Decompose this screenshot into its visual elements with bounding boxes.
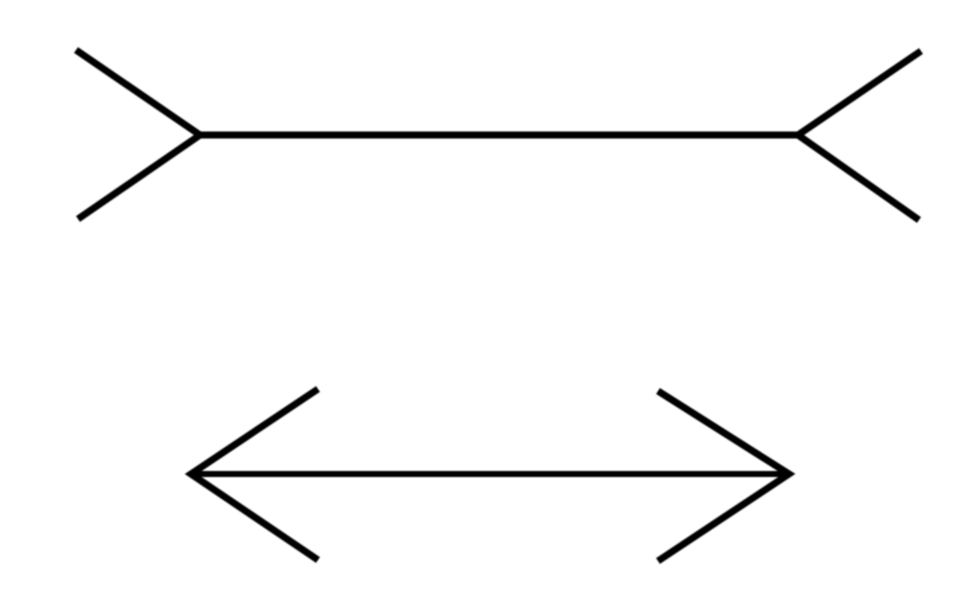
top left inward fins — [76, 50, 200, 219]
bottom left arrowhead — [191, 389, 318, 560]
bottom right arrowhead — [658, 391, 789, 561]
top right inward fins — [798, 51, 921, 220]
top line shaft — [200, 132, 798, 139]
bottom arrow shaft — [191, 471, 789, 477]
